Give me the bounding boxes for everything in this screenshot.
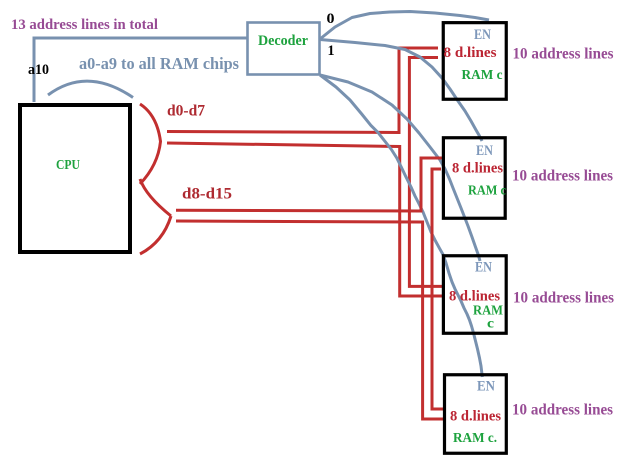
svg-text:d0-d7: d0-d7: [167, 103, 205, 120]
wire: decoder output 0 enable line to RAM chip 1: [320, 12, 489, 40]
svg-text:a10: a10: [28, 62, 49, 78]
RAM chip 2: [443, 138, 505, 219]
svg-text:a0-a9 to all RAM chips: a0-a9 to all RAM chips: [79, 54, 240, 73]
svg-text:13 address lines in total: 13 address lines in total: [11, 17, 158, 33]
svg-text:10 address lines: 10 address lines: [513, 290, 614, 307]
wire: data line RAM1 lower feed to RAM3 upper feed: [409, 58, 442, 287]
wire: decoder output 2 enable line to RAM chip 3: [320, 75, 480, 261]
svg-text:RAM c.: RAM c.: [453, 431, 497, 446]
wire: d0-d7 upper data line, corner up to RAM1 upper feed: [167, 48, 438, 133]
svg-text:Decoder: Decoder: [258, 33, 308, 49]
wire: d8-d15 upper data line horizontal: [176, 209, 421, 213]
wire: d0-d7 lower data line, corner down to RAM3 lower feed: [167, 143, 443, 296]
RAM chip 4: [445, 375, 507, 454]
svg-text:0: 0: [327, 11, 335, 27]
svg-text:8 d.lines: 8 d.lines: [450, 409, 501, 425]
brace: CPU d8-d15 bus fanout: [140, 179, 171, 254]
decoder U1: [248, 23, 320, 75]
RAM chip 1: [443, 23, 506, 100]
wire: d8-d15 lower vertical down to RAM4 lower feed: [423, 221, 444, 420]
svg-text:8 d.lines: 8 d.lines: [449, 289, 500, 305]
svg-text:c: c: [487, 317, 494, 332]
wire: d8-d15 lower data line horizontal: [176, 221, 423, 222]
wire: decoder output 3 enable line to RAM chip 4: [320, 75, 482, 377]
wire: data line RAM2 lower feed to RAM4 upper feed: [432, 169, 444, 409]
svg-text:d8-d15: d8-d15: [182, 186, 232, 203]
wire: d8-d15 upper vertical up to RAM2 upper feed: [421, 158, 442, 213]
wire: a0-a9 arc over CPU: [48, 81, 133, 97]
svg-text:EN: EN: [477, 379, 495, 395]
svg-text:CPU: CPU: [56, 158, 80, 173]
svg-text:EN: EN: [474, 27, 491, 43]
svg-text:8 d.lines: 8 d.lines: [452, 161, 503, 177]
wire: decoder output 1 enable line to RAM chip 2: [320, 40, 482, 142]
RAM chip 3: [443, 256, 506, 334]
brace: CPU d0-d7 bus fanout: [140, 104, 161, 184]
CPU box: [20, 105, 130, 252]
svg-text:EN: EN: [476, 143, 493, 159]
svg-text:10 address lines: 10 address lines: [512, 168, 613, 185]
svg-text:1: 1: [328, 43, 335, 59]
svg-text:RAM c: RAM c: [462, 68, 503, 83]
svg-text:10 address lines: 10 address lines: [513, 46, 614, 63]
wire: a10 address line from CPU to decoder: [34, 38, 247, 102]
svg-text:RAM c: RAM c: [468, 183, 506, 198]
svg-text:EN: EN: [475, 260, 492, 276]
svg-text:10 address lines: 10 address lines: [512, 402, 613, 419]
svg-text:8 d.lines: 8 d.lines: [444, 45, 497, 61]
